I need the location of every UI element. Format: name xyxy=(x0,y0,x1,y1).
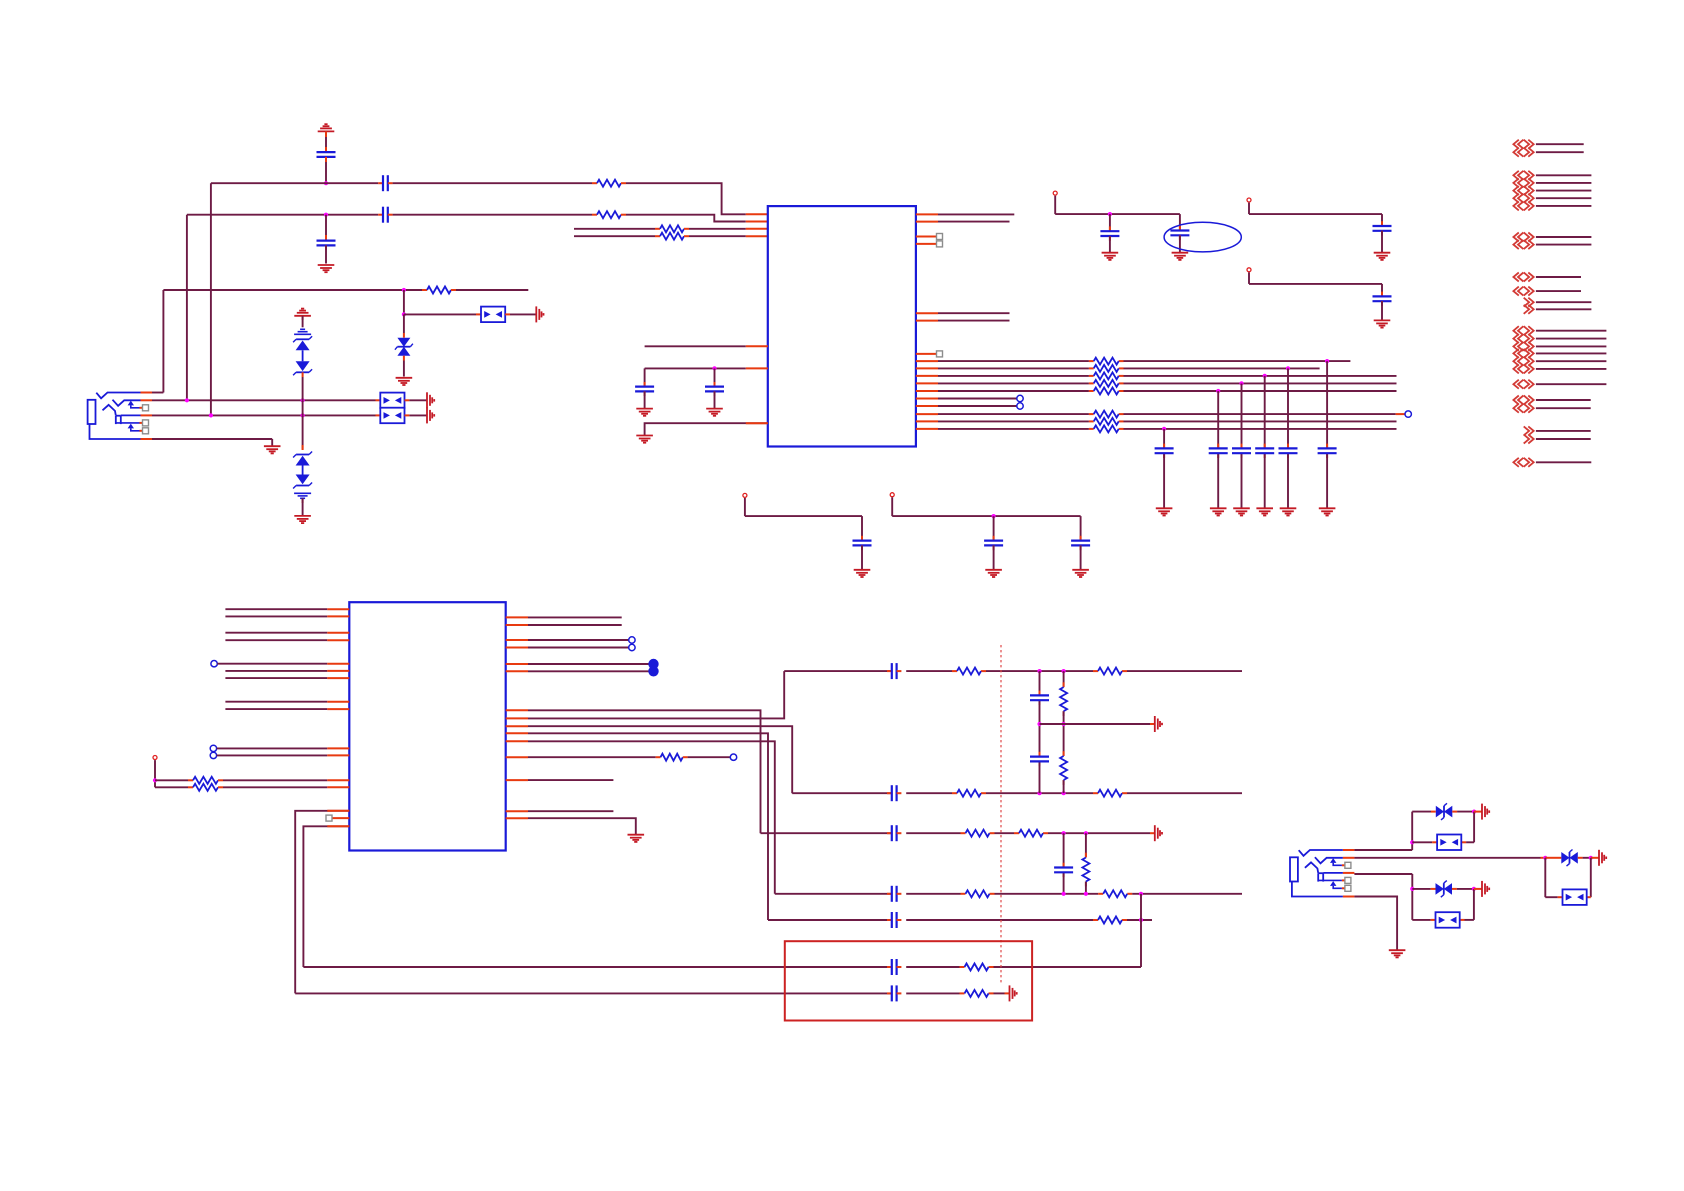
wire U1 bus row h xyxy=(916,413,1396,415)
wire P1 rail xyxy=(1055,213,1180,215)
off-page connector OP6 xyxy=(1513,326,1606,373)
wire U2 H3 to row B xyxy=(506,726,793,793)
no-connect blob xyxy=(648,659,658,677)
junction lower loop right xyxy=(1472,887,1476,891)
wire U2 pin row 826 routing xyxy=(303,826,349,967)
capacitor CL3 (ladder) xyxy=(1054,868,1073,873)
capacitor CB1 xyxy=(1155,448,1174,453)
ground GND11 below C8 xyxy=(1172,253,1189,260)
resistor R2 (on W2) xyxy=(597,211,621,218)
wire lower TVS row xyxy=(1412,888,1435,890)
junction ring loop left xyxy=(1543,856,1547,860)
wire U1 bus row b xyxy=(916,367,1320,369)
ground GND16 below C19 xyxy=(1072,570,1089,577)
wire U1 bus row j xyxy=(916,428,1397,430)
capacitor C17 xyxy=(853,541,872,570)
ferrite bead FB2 xyxy=(380,393,404,409)
wire jack2 row3 xyxy=(1354,873,1412,875)
wire W1 horizontal xyxy=(211,182,383,184)
wire D8-D9 xyxy=(302,466,304,475)
resistor R1 (on W1) xyxy=(597,180,621,187)
wire U1 bus row d xyxy=(916,382,1397,384)
resistor R1a (bus row a) xyxy=(1094,358,1119,365)
ground GNDB4 xyxy=(1256,508,1273,515)
junction row C v3 xyxy=(1062,831,1066,835)
TVS diode D11 xyxy=(1561,850,1578,867)
capacitor CB6 xyxy=(1318,448,1337,453)
wire W1 right of C3 xyxy=(388,182,597,184)
wire jack2 tip row xyxy=(1354,849,1412,851)
IC U2 xyxy=(349,602,505,850)
resistor R1h (bus row h) xyxy=(1094,411,1119,418)
wire D9 to ground xyxy=(302,498,304,516)
ground GND10 below C7 xyxy=(1102,253,1119,260)
resistor R4 xyxy=(660,233,684,240)
wire row G xyxy=(295,992,1009,994)
red dotted guide line xyxy=(1000,645,1002,985)
wire U1 out1 xyxy=(916,213,1014,215)
off-page connector OP9 xyxy=(1524,426,1591,443)
junction P4/R6 xyxy=(153,778,157,782)
audio jack J2 xyxy=(1290,850,1354,897)
capacitor C18 xyxy=(984,516,1003,570)
wire cap column 4 xyxy=(1264,376,1266,508)
ground GND3 below D5 xyxy=(396,378,413,385)
wire W1 vertical drop xyxy=(210,183,212,415)
wire U2 out7 xyxy=(506,779,614,781)
junction row A v2 xyxy=(1062,669,1066,673)
IC U1 xyxy=(768,206,916,446)
wire U2 in11 xyxy=(210,752,349,758)
chassis ground (sideways) GNDC xyxy=(427,407,434,423)
wire row D xyxy=(775,893,1242,895)
wire U2 in3 xyxy=(225,632,349,634)
resistor R1e (bus row e) xyxy=(1094,388,1119,395)
capacitor C5 xyxy=(635,368,654,408)
wire FB3 to ground xyxy=(405,414,428,416)
wire top loop right vertical xyxy=(1473,812,1475,843)
resistor RL3 (ladder) xyxy=(1082,858,1089,882)
wire jack2 sleeve xyxy=(1354,897,1397,950)
wire lower box row xyxy=(1412,919,1474,921)
zener diode D6 xyxy=(293,336,312,350)
resistor R1d (bus row d) xyxy=(1094,380,1119,387)
wire cap column 6 xyxy=(1326,361,1328,508)
junction TVS stack/row B xyxy=(301,413,305,417)
capacitor CL2 (ladder) xyxy=(1030,757,1049,762)
wire U2 out2 xyxy=(506,624,622,626)
wire U1 out4 xyxy=(916,320,1010,322)
off-page connector OP4b xyxy=(1513,287,1581,296)
wire ring row to TVS xyxy=(1545,857,1561,859)
wire FB2 to ground xyxy=(405,399,428,401)
nc pin U1 c xyxy=(916,351,943,357)
wire row E xyxy=(768,919,1152,921)
wire lower loop right vertical xyxy=(1473,889,1475,920)
resistor RB2 (row B) xyxy=(1098,790,1122,797)
wire jack2 tip riser xyxy=(1411,812,1413,850)
wire ladder V3 xyxy=(1063,833,1065,894)
junction C6/pin6 xyxy=(712,366,716,370)
wire U2 in9 xyxy=(225,708,349,710)
junction row D v4 xyxy=(1084,892,1088,896)
wire U2 in7 xyxy=(225,677,349,679)
ferrite bead FB4 xyxy=(1437,835,1461,851)
off-page connector OP3 xyxy=(1513,233,1591,250)
wire U2 R8 row xyxy=(506,756,661,758)
ground GND15 below C18 xyxy=(985,570,1002,577)
power pin P2 xyxy=(1247,198,1251,214)
junction row B v1 xyxy=(1037,791,1041,795)
wire U2 out6 xyxy=(506,670,650,672)
no-connect circle row g xyxy=(1017,403,1023,409)
wire W3 horizontal xyxy=(163,289,427,291)
junction lower loop left xyxy=(1410,887,1414,891)
wire U1 bus row g xyxy=(916,405,1017,407)
junction top loop right xyxy=(1472,810,1476,814)
capacitor CB2 xyxy=(1209,448,1228,453)
power pin P3 xyxy=(1247,268,1251,284)
resistor R1b (bus row b) xyxy=(1094,365,1119,372)
wire P2 rail xyxy=(1249,214,1382,226)
resistor RA2 (row A) xyxy=(1098,668,1122,675)
junction row B v2 xyxy=(1062,791,1066,795)
junction TVS branch xyxy=(402,312,406,316)
capacitor CD (row D) xyxy=(887,886,901,902)
ground GND14 below C17 xyxy=(854,570,871,577)
resistor RL2 (ladder) xyxy=(1060,756,1067,780)
wire D7 to ring row xyxy=(302,372,304,400)
wire row C xyxy=(761,832,1155,834)
wire U2 in6 xyxy=(225,670,349,672)
ground GND12 below C9 xyxy=(1374,253,1391,260)
wire mid to ground xyxy=(1040,723,1155,725)
wire W1 to U1 pin1 xyxy=(621,183,768,214)
wire D6-D7 xyxy=(302,350,304,361)
capacitor C9 xyxy=(1373,226,1392,253)
wire cap column 3 xyxy=(1241,383,1243,508)
wire row F xyxy=(303,966,1141,968)
wire U1 bus row a xyxy=(916,360,1351,362)
ferrite bead FB6 xyxy=(1436,912,1460,928)
wire W2 horizontal xyxy=(187,214,383,216)
ground GNDB5 xyxy=(1280,508,1297,515)
capacitor CF (row F) xyxy=(887,959,901,975)
red highlight box xyxy=(785,941,1032,1020)
wire top loop gnd stub xyxy=(1474,811,1482,813)
chassis ground (sideways) GNDA xyxy=(536,306,543,322)
junction P1/C7 xyxy=(1108,212,1112,216)
junction W1/C1 xyxy=(324,181,328,185)
off-page connector OP1 xyxy=(1513,140,1583,157)
wire U2 out3 nc xyxy=(506,637,635,643)
no-connect circle row f xyxy=(1017,395,1023,401)
wire W2 to U1 pin2 xyxy=(388,214,597,216)
TVS diode D12 xyxy=(1436,881,1453,898)
chassis ground (sideways) GNDI xyxy=(1482,881,1489,897)
ferrite bead FB3 xyxy=(380,408,404,424)
off-page connector OP8 xyxy=(1513,396,1590,413)
ground GND17 xyxy=(628,835,645,842)
wire ring gnd stub xyxy=(1591,857,1599,859)
capacitor CG (row G) xyxy=(887,985,901,1001)
chassis ground (sideways) GNDD xyxy=(1155,716,1162,732)
wire N3 to U1 pin3 xyxy=(574,228,660,230)
wire U1 pin7 to ground xyxy=(645,423,768,435)
junction W2/C2 xyxy=(324,213,328,217)
junction row E v5 xyxy=(1139,918,1143,922)
capacitor C8 xyxy=(1170,231,1189,253)
wire U2 out1 xyxy=(506,616,622,618)
zener diode D7 xyxy=(293,361,312,375)
wire U2 H5 to row D xyxy=(506,741,775,894)
capacitor CE (row E) xyxy=(887,912,901,928)
wire ring loop right vertical xyxy=(1590,858,1592,897)
wire jack1 tip row xyxy=(152,392,163,394)
wire TVS row top loop xyxy=(1412,811,1436,813)
wire branch to FB1 xyxy=(404,313,481,315)
wire U1 pin6 net xyxy=(645,367,768,369)
wire U1 pin5 stub xyxy=(645,345,768,347)
ferrite bead FB1 xyxy=(481,307,505,323)
resistor R5 (on W3) xyxy=(427,287,451,294)
nc pin U1 a xyxy=(916,234,943,240)
ground GND4 (inverted) above TVS stack xyxy=(294,309,311,328)
wire U2 in2 xyxy=(225,615,349,617)
junction bus row e xyxy=(1216,389,1220,393)
off-page connector OP4a xyxy=(1513,273,1581,282)
junction bus row b xyxy=(1286,366,1290,370)
wire U2 pin row 811 routing xyxy=(295,811,349,994)
resistor RD2 (row D) xyxy=(1103,890,1127,897)
junction jack2 tip/box branch xyxy=(1410,840,1414,844)
capacitor C2 xyxy=(317,215,336,264)
wire R6 to U2 xyxy=(218,779,349,781)
audio jack J1 xyxy=(88,393,152,440)
wire U2 in4 xyxy=(225,639,349,641)
wire TVS stack between rows xyxy=(302,400,304,415)
power pin P4 xyxy=(153,756,157,788)
resistor RD1 (row D) xyxy=(966,890,990,897)
junction row A v1 xyxy=(1037,669,1041,673)
mini bars above zener D6 xyxy=(294,329,311,334)
junction row C v4 xyxy=(1084,831,1088,835)
off-page connector OP5 xyxy=(1524,298,1592,314)
resistor RE1 (row E) xyxy=(1098,917,1122,924)
wire row B xyxy=(792,792,1242,794)
wire cap column 5 xyxy=(1287,368,1289,508)
wire jack1 sleeve to ground xyxy=(152,439,272,446)
wire U1 bus row c xyxy=(916,375,1397,377)
capacitor C1 xyxy=(317,152,336,183)
ground GND1 (inverted) above C1 xyxy=(318,124,335,152)
wire R3 to U1 xyxy=(684,228,768,230)
junction bus row j xyxy=(1162,427,1166,431)
ground GND9 at U1 pin7 xyxy=(636,436,653,443)
ground GND2 below C2 xyxy=(318,265,335,272)
wire jack1 ring row to FB2 xyxy=(152,399,380,401)
chassis ground (sideways) GNDF xyxy=(1010,985,1017,1001)
wire U1 bus row f xyxy=(916,398,1017,400)
wire R7 to U2 xyxy=(218,786,349,788)
chassis ground (sideways) GNDB xyxy=(427,392,434,408)
resistor RB1 (row B) xyxy=(957,790,981,797)
wire W2 right of R2 xyxy=(621,215,768,222)
wire jack2 row3 drop xyxy=(1411,874,1413,920)
wire U2 out9 to ground xyxy=(506,818,636,835)
wire P4 to R6 xyxy=(155,779,193,781)
junction ring loop right xyxy=(1589,856,1593,860)
off-page connector OP7 xyxy=(1513,380,1606,389)
resistor R7 xyxy=(193,784,218,791)
junction P6/C18 xyxy=(992,514,996,518)
junction W1/row B xyxy=(209,413,213,417)
wire U2 in5 xyxy=(211,661,349,667)
wire P4 to R7 xyxy=(155,786,193,788)
junction row D v5 xyxy=(1139,892,1143,896)
power pin P5 xyxy=(743,493,747,516)
resistor R3 xyxy=(660,225,684,232)
capacitor C7 xyxy=(1100,214,1119,253)
wire to TVS D5 xyxy=(403,314,405,337)
off-page connector OP2 xyxy=(1513,171,1591,211)
ground GNDB1 xyxy=(1156,508,1173,515)
wire D5 to ground xyxy=(403,356,405,377)
capacitor CA (row A) xyxy=(887,663,901,679)
wire U1 bus row i xyxy=(916,420,1397,422)
ferrite bead FB5 xyxy=(1563,889,1587,905)
wire U2 out4 nc xyxy=(506,644,635,650)
nc pin U1 b xyxy=(916,241,943,247)
wire N4 to U1 pin4 xyxy=(574,235,660,237)
TVS diode D10 xyxy=(1436,803,1453,820)
wire R8 to nc circle xyxy=(683,754,737,760)
capacitor CB5 xyxy=(1279,448,1298,453)
resistor R1i (bus row i) xyxy=(1094,418,1119,425)
resistor RL1 (ladder) xyxy=(1060,687,1067,711)
power pin P6 xyxy=(890,493,894,516)
wire V5 xyxy=(1140,894,1142,967)
wire W3 right of R5 xyxy=(451,289,528,291)
wire ladder V1 xyxy=(1039,671,1041,793)
resistor RC2 (row C) xyxy=(1019,830,1043,837)
wire P3 rail xyxy=(1249,284,1382,297)
wire row A xyxy=(784,670,1242,672)
resistor R6 xyxy=(193,777,218,784)
wire U2 H4 to row E xyxy=(506,733,768,920)
wire ladder V2 xyxy=(1063,671,1065,793)
ground GND7 below C5 xyxy=(636,409,653,416)
wire R4 to U1 xyxy=(684,235,768,237)
junction mid V2 xyxy=(1062,722,1066,726)
resistor RG1r (row G) xyxy=(965,990,989,997)
ground GND13 below C10 xyxy=(1374,320,1391,327)
wire U2 out8 xyxy=(506,810,614,812)
wire FB1 to ground xyxy=(505,313,536,315)
ground GNDB6 xyxy=(1319,508,1336,515)
wire jack2 ring row xyxy=(1354,857,1545,859)
wire ring loop bottom xyxy=(1545,896,1591,898)
junction TVS stack top/ring row xyxy=(301,398,305,402)
capacitor C19 xyxy=(1071,516,1090,570)
wire row B to zener D8 xyxy=(302,415,304,450)
wire P1 to C8 xyxy=(1179,214,1181,230)
wire U2 out5 xyxy=(506,663,650,665)
capacitor CL1 (ladder) xyxy=(1030,695,1049,700)
capacitor CBB (row B) xyxy=(887,785,901,801)
zener diode D8 xyxy=(293,452,312,466)
junction mid V1 xyxy=(1037,722,1041,726)
wire ladder V4 xyxy=(1085,833,1087,894)
power pin P1 xyxy=(1053,191,1057,214)
resistor R1c (bus row c) xyxy=(1094,372,1119,379)
no-connect circle row h end xyxy=(1396,411,1412,417)
junction bus row d xyxy=(1239,381,1243,385)
wire U1 out2 xyxy=(916,221,1010,223)
ground GND8 below C6 xyxy=(706,409,723,416)
wire TVS branch vertical xyxy=(403,290,405,314)
junction bus row a xyxy=(1325,359,1329,363)
nc pin U2 xyxy=(326,815,349,821)
ground GND18 jack2 sleeve xyxy=(1389,950,1406,957)
wire D10 to node xyxy=(1452,811,1474,813)
ground GND6 jack1 sleeve xyxy=(264,446,281,453)
wire lower gnd stub xyxy=(1474,888,1482,890)
ground GND5 below TVS stack xyxy=(294,516,311,523)
wire D11 to node xyxy=(1578,857,1591,859)
chassis ground (sideways) GNDH xyxy=(1599,850,1606,866)
resistor RF1 (row F) xyxy=(965,964,989,971)
junction row D v3 xyxy=(1062,892,1066,896)
zener diode D9 xyxy=(293,475,312,489)
wire D12 to node xyxy=(1452,888,1474,890)
wire U1 out3 xyxy=(916,312,1010,314)
capacitor C6 xyxy=(705,368,724,408)
junction W3 branch xyxy=(402,288,406,292)
capacitor C4 (series on W2) xyxy=(383,207,388,223)
wire jack1 row B xyxy=(152,414,380,416)
wire P5 rail xyxy=(745,516,862,541)
resistor R8 xyxy=(661,754,683,761)
resistor RA1 (row A) xyxy=(957,668,981,675)
chassis ground (sideways) GNDE xyxy=(1155,825,1162,841)
wire W2 vertical drop xyxy=(186,215,188,401)
resistor R1j (bus row j) xyxy=(1094,425,1119,432)
wire cap column 1 xyxy=(1163,429,1165,508)
ground GNDB3 xyxy=(1233,508,1250,515)
capacitor CC (row C) xyxy=(887,825,901,841)
wire U2 H1 to row C xyxy=(506,710,761,833)
resistor RC1 (row C) xyxy=(966,830,990,837)
mini bars below zener D9 xyxy=(294,493,311,498)
wire box branch xyxy=(1412,841,1474,843)
wire U2 in8 xyxy=(225,701,349,703)
wire U2 in1 xyxy=(225,608,349,610)
junction bus row c xyxy=(1263,374,1267,378)
wire W3 vertical to jack contact1 xyxy=(162,290,164,393)
wire ring loop left vertical xyxy=(1544,858,1546,897)
ground GNDB2 xyxy=(1210,508,1227,515)
wire U1 bus row e xyxy=(916,390,1397,392)
off-page connector OP10 xyxy=(1513,458,1591,467)
capacitor CB4 xyxy=(1255,448,1274,453)
junction W2/jack ring xyxy=(185,398,189,402)
wire cap column 2 xyxy=(1217,391,1219,508)
wire U2 in10 xyxy=(210,745,349,751)
capacitor C10 xyxy=(1373,296,1392,320)
highlight ellipse around C8 xyxy=(1164,222,1241,252)
wire U2 H2 to row A xyxy=(506,671,785,718)
